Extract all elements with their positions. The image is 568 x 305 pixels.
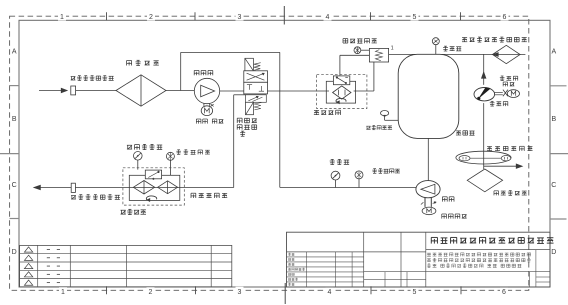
- svg-text:5: 5: [413, 289, 417, 296]
- vacuum suction arrow: [481, 72, 486, 78]
- wire heater to tank top / vacuum header: [389, 53, 526, 55]
- svg-text:A: A: [551, 49, 556, 56]
- label zhenkongbiao: [443, 46, 461, 51]
- evaporation tank: [398, 54, 459, 138]
- label title block row labels: [288, 253, 305, 286]
- wire return sensor stem: [169, 160, 171, 175]
- oil-water filter: [467, 169, 502, 192]
- inlet quick connector J1: [71, 86, 76, 95]
- label banjing lvxin: [314, 110, 341, 115]
- line pressure gauge: [331, 171, 340, 180]
- wire line gauge stem: [335, 180, 337, 188]
- discharge pump motor M3: [422, 207, 436, 215]
- return oil pressure gauge: [134, 152, 143, 161]
- wire bottom discharge pipe left run: [76, 187, 234, 189]
- temperature sensor: [354, 47, 361, 54]
- label company name: [431, 237, 553, 243]
- wire return gauge stem: [137, 160, 139, 170]
- label yali biao mid: [330, 159, 349, 164]
- wire valve drain riser: [234, 95, 246, 188]
- label wendu chuanganqi: [343, 39, 377, 44]
- wire coarse filter to inlet pump: [166, 90, 194, 92]
- label dianci huanxiang fa mokuai L1: [237, 118, 257, 123]
- label dianci huanxiang fa mokuai L2: [237, 125, 256, 130]
- level controller: [381, 111, 389, 121]
- fine filter pressure sensor: [166, 152, 174, 160]
- inlet pump motor M1: [201, 106, 212, 116]
- odor separator: [456, 151, 511, 164]
- svg-text:3: 3: [238, 289, 242, 296]
- label zhenkongbeng dianji L2: [503, 82, 514, 86]
- svg-text:C: C: [12, 182, 17, 189]
- wire vacuum gauge stem: [435, 45, 437, 55]
- label fangjianlou kuaisu jietou top: [71, 76, 114, 81]
- label youbeng bottom: [442, 197, 454, 202]
- wire inlet pump to valve module: [220, 90, 244, 92]
- label zhenkongbeng: [490, 101, 508, 106]
- vacuum pump coupling: [495, 90, 508, 97]
- label youbeng dianji top: [196, 119, 223, 124]
- svg-text:D: D: [551, 249, 556, 256]
- inlet pump coupling: [204, 103, 214, 106]
- svg-text:6: 6: [503, 14, 507, 21]
- svg-text:B: B: [551, 116, 556, 123]
- inlet flow arrow: [39, 88, 67, 93]
- wire inlet to coarse filter: [76, 90, 116, 92]
- label yali chuanganqi left: [176, 150, 210, 155]
- inlet oil pump P1: [194, 78, 219, 103]
- coarse filter: [116, 75, 166, 106]
- svg-text:A: A: [12, 49, 17, 56]
- wire valve module to semi-fine filter: [268, 90, 329, 92]
- label kongqi guolv ganzao fashengqi: [462, 37, 527, 42]
- wire tank drain to discharge pump: [427, 138, 429, 180]
- svg-text:6: 6: [502, 289, 506, 296]
- svg-text:B: B: [12, 116, 17, 123]
- title block: [287, 232, 551, 287]
- wire line sensor stem: [358, 179, 360, 188]
- label zhengfaguan: [456, 131, 475, 135]
- solenoid directional valve module: [244, 58, 268, 114]
- vacuum pump: [474, 88, 495, 101]
- line pressure sensor: [355, 171, 363, 179]
- wire semi-fine filter to heater riser: [354, 62, 374, 91]
- svg-text:1: 1: [391, 46, 394, 52]
- svg-text:D: D: [12, 249, 17, 256]
- fine filter assembly: [123, 168, 184, 205]
- svg-text:2: 2: [149, 14, 153, 21]
- label fangjianlou kuaisu jietou bottom: [71, 195, 120, 200]
- wire vacuum pump suction riser: [483, 54, 485, 84]
- label chuyiwei fenliqi: [487, 146, 533, 151]
- wire bypass loop: [181, 52, 280, 187]
- svg-text:5: 5: [413, 14, 417, 21]
- svg-text:1: 1: [61, 289, 65, 296]
- svg-text:4: 4: [328, 289, 332, 296]
- wire bottom discharge pipe right run: [280, 187, 417, 189]
- wire temp sensor to heater: [361, 49, 370, 51]
- vacuum gauge: [432, 38, 439, 45]
- label jin you beng: [194, 71, 213, 76]
- heater 1: [369, 46, 393, 62]
- svg-text:2: 2: [149, 289, 153, 296]
- label dianci huanxiang fa mokuai L3: [240, 131, 245, 136]
- revision table: [20, 245, 232, 286]
- outlet flow arrow: [34, 185, 71, 190]
- label yali chuanganqi mid: [372, 169, 400, 174]
- discharge oil pump P2: [416, 181, 440, 198]
- air filter dryer generator: [493, 45, 521, 63]
- vacuum pump motor M2: [507, 90, 519, 98]
- wire heater bypass to filter relief: [340, 55, 370, 75]
- label youshui fenliqi: [191, 193, 227, 198]
- label huiyou yali biao: [127, 144, 162, 149]
- svg-text:1: 1: [60, 14, 64, 21]
- semi-fine filter assembly: [317, 74, 367, 108]
- label zhenkongbeng dianji L1: [500, 76, 518, 81]
- wire level controller tap: [385, 119, 399, 121]
- exhaust arrow: [484, 164, 523, 168]
- label jing guolvqi: [121, 209, 147, 214]
- label yewei kongzhiqi: [366, 125, 392, 129]
- outlet quick connector J2: [71, 183, 75, 192]
- svg-text:4: 4: [326, 14, 330, 21]
- label cu guolvqi: [127, 60, 159, 65]
- svg-text:C: C: [551, 182, 556, 189]
- label youshui guolvqi: [494, 191, 527, 196]
- svg-text:3: 3: [238, 14, 242, 21]
- label disclaimer text: [427, 253, 531, 268]
- discharge pump coupling: [421, 198, 436, 207]
- wire vacuum pump to odor separator: [483, 103, 485, 169]
- label youbeng dianji bottom: [442, 214, 467, 219]
